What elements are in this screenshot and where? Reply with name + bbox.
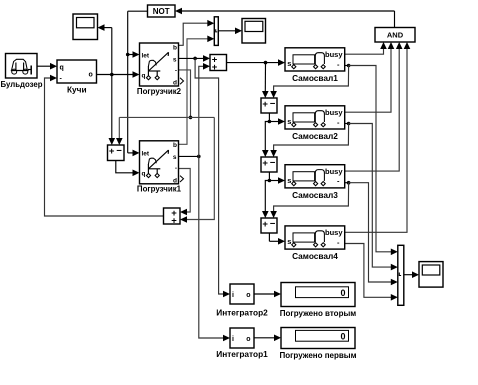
svg-text:q: q — [60, 64, 64, 71]
svg-text:Погружено вторым: Погружено вторым — [280, 309, 356, 318]
svg-text:d: d — [173, 178, 177, 185]
svg-text:-: - — [175, 165, 177, 172]
svg-text:q: q — [142, 170, 146, 177]
svg-text:b: b — [173, 44, 177, 51]
svg-text:Самосвал2: Самосвал2 — [292, 131, 338, 141]
svg-text:let: let — [142, 53, 150, 60]
svg-text:−: − — [270, 219, 276, 230]
svg-text:NOT: NOT — [153, 7, 170, 16]
svg-text:s: s — [287, 59, 291, 68]
svg-text:+: + — [262, 99, 268, 110]
svg-text:Самосвал1: Самосвал1 — [292, 73, 338, 83]
svg-text:Самосвал4: Самосвал4 — [292, 251, 338, 261]
svg-text:+: + — [212, 62, 218, 73]
svg-text:busy: busy — [325, 108, 343, 117]
svg-text:s: s — [287, 117, 291, 126]
svg-text:i: i — [232, 336, 234, 343]
svg-text:0: 0 — [340, 332, 345, 342]
svg-text:busy: busy — [325, 50, 343, 59]
svg-text:−: − — [116, 146, 122, 157]
svg-text:d: d — [173, 80, 177, 87]
svg-text:b: b — [173, 142, 177, 149]
svg-text:busy: busy — [325, 167, 343, 176]
svg-text:q: q — [142, 73, 146, 80]
svg-text:+: + — [109, 146, 115, 157]
svg-text:Интегратор1: Интегратор1 — [216, 349, 268, 359]
svg-text:0: 0 — [340, 288, 345, 298]
svg-text:Интегратор2: Интегратор2 — [216, 307, 268, 317]
svg-text:+: + — [262, 158, 268, 169]
svg-text:Бульдозер: Бульдозер — [1, 80, 43, 89]
svg-text:+: + — [262, 219, 268, 230]
svg-text:AND: AND — [387, 31, 404, 40]
svg-text:o: o — [246, 336, 250, 343]
svg-text:s: s — [173, 56, 177, 63]
svg-text:Погрузчик2: Погрузчик2 — [137, 87, 182, 96]
svg-text:-: - — [175, 67, 177, 74]
svg-text:o: o — [89, 72, 93, 79]
svg-text:Самосвал3: Самосвал3 — [292, 190, 338, 200]
svg-text:Погрузчик1: Погрузчик1 — [137, 185, 182, 194]
svg-text:s: s — [287, 237, 291, 246]
svg-text:Кучи: Кучи — [67, 85, 87, 95]
svg-text:i: i — [232, 292, 234, 299]
svg-text:−: − — [270, 158, 276, 169]
svg-text:busy: busy — [325, 228, 343, 237]
svg-text:let: let — [142, 150, 150, 157]
svg-text:s: s — [287, 176, 291, 185]
svg-text:Погружено первым: Погружено первым — [279, 351, 356, 360]
svg-text:s: s — [173, 154, 177, 161]
svg-text:+: + — [171, 215, 177, 226]
svg-text:o: o — [246, 292, 250, 299]
svg-text:−: − — [270, 99, 276, 110]
